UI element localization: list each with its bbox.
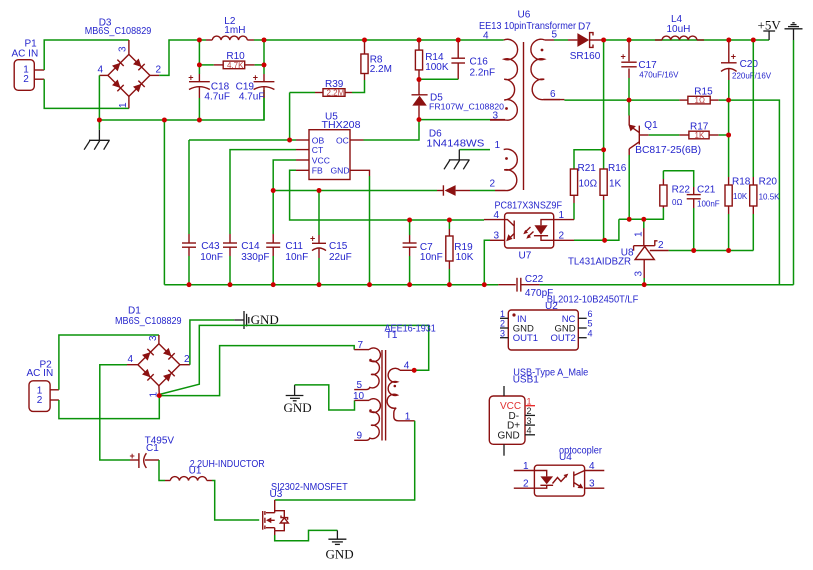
svg-text:T1: T1 (386, 330, 398, 341)
bridge rectifier D1 MB6S_C108829 (127, 335, 190, 396)
D1 diode on edge 4-3 (cathode at 3) (142, 349, 154, 361)
resistor R14 (415, 40, 422, 80)
junction U7 pin2 node (602, 238, 607, 243)
wire P1 pin1 to D3 pin3 (44, 40, 129, 70)
wire P1 pin2 to D3 pin1 (44, 79, 129, 108)
svg-text:Q1: Q1 (644, 120, 658, 131)
wire negative rail y=120 (99, 90, 264, 120)
svg-text:4: 4 (98, 65, 104, 76)
wire U7 pin3 down to rail (484, 240, 490, 284)
junction C18 bottom (197, 118, 202, 123)
svg-text:1mH: 1mH (224, 25, 245, 36)
wire +5V rail top (604, 39, 770, 41)
svg-text:R16: R16 (608, 163, 627, 174)
inductor L2 (199, 36, 264, 40)
resistor R10 (199, 61, 264, 70)
svg-text:5: 5 (357, 380, 363, 391)
junction rail C11 (271, 282, 276, 287)
svg-text:22uF: 22uF (329, 252, 352, 263)
svg-text:5: 5 (588, 319, 593, 329)
junction U8 pin3 rail (642, 282, 647, 287)
junction R14/D5 (417, 77, 422, 82)
svg-text:10uH: 10uH (667, 24, 691, 35)
svg-text:R18: R18 (732, 177, 751, 188)
wire C43 drop (188, 140, 190, 234)
bridge rectifier D3 MB6S_C108829 (99, 40, 159, 108)
earth ground GND at U3 source (326, 530, 354, 561)
svg-text:R10: R10 (226, 51, 245, 62)
transformer U6 aux winding pins 1-2 (495, 149, 517, 190)
svg-text:C1: C1 (146, 443, 159, 454)
junction Q1 emitter node (627, 217, 632, 222)
svg-text:U3: U3 (270, 489, 283, 500)
net flag GND sideways at D1 pin2 (234, 311, 279, 329)
svg-text:MB6S_C108829: MB6S_C108829 (85, 26, 152, 37)
wire U3 source to GND (275, 530, 338, 540)
junction C17 bottom (627, 98, 632, 103)
svg-text:+: + (188, 73, 193, 83)
wire VCC net to D6 (273, 190, 437, 192)
svg-text:GND: GND (331, 166, 350, 176)
svg-text:R20: R20 (759, 177, 778, 188)
wire emitter node horizontal to R22 (619, 208, 664, 219)
svg-text:+: + (130, 451, 135, 461)
wire R20 riser (752, 40, 754, 177)
wire D5 bottom to U5 OC (364, 120, 420, 140)
svg-text:C11: C11 (285, 241, 303, 252)
transformer T1 AEE16-1931 winding 7-5 (354, 348, 380, 390)
wire Q1 base to R17 (649, 134, 680, 136)
svg-text:10nF: 10nF (285, 252, 308, 263)
junction R10 left (197, 63, 202, 68)
svg-text:PC817X3NSZ9F: PC817X3NSZ9F (495, 201, 563, 212)
resistor R15 (679, 96, 728, 105)
svg-text:3: 3 (634, 271, 645, 277)
svg-text:330pF: 330pF (241, 252, 269, 263)
junction C16 top (456, 38, 461, 43)
svg-text:1K: 1K (609, 179, 622, 190)
wire TL431 ref net (669, 250, 754, 252)
junction ref R18 (726, 248, 731, 253)
wire U5 CT to C14 (230, 150, 296, 234)
resistor R21 (570, 169, 577, 220)
connector P1 pin 2 stub (34, 78, 44, 80)
svg-text:1N4148WS: 1N4148WS (426, 138, 484, 149)
svg-text:100nF: 100nF (697, 200, 720, 209)
svg-text:9: 9 (357, 431, 363, 442)
svg-text:6: 6 (588, 309, 593, 319)
capacitor C17 polarized electrolytic (621, 40, 637, 100)
junction T1 pin4 (412, 368, 417, 373)
svg-text:4.7uF: 4.7uF (204, 92, 230, 103)
junction rail C14 (228, 282, 233, 287)
svg-text:U6: U6 (518, 10, 531, 21)
svg-text:2: 2 (23, 74, 29, 85)
transformer U6 EE13 primary winding pins 4-3 (490, 39, 518, 120)
D3 diode on edge 1-2 (cathode at 2) (133, 81, 145, 93)
resistor R18 (725, 177, 732, 251)
svg-text:OUT2: OUT2 (551, 333, 576, 344)
junction R19 top (447, 218, 452, 223)
bottom rail left part (164, 284, 498, 286)
wire D7 long vertical x=604 (603, 40, 605, 150)
junction rail U7 pin3 (482, 282, 487, 287)
connector P1 pin 1 stub (34, 69, 44, 71)
T1 secondary phase dot (394, 385, 397, 388)
svg-text:1: 1 (523, 461, 529, 472)
wire L2 left down to R10/C18 (198, 40, 200, 74)
junction dots overlay (97, 38, 756, 398)
junction C7 top (407, 218, 412, 223)
earth ground GND left of T1 (284, 385, 312, 415)
svg-text:C43: C43 (201, 241, 220, 252)
D1 diode on edge 1-2 (cathode at 2) (163, 370, 175, 382)
svg-text:0Ω: 0Ω (672, 198, 682, 207)
junction rail C7 (407, 282, 412, 287)
junction R20 riser top (751, 38, 756, 43)
svg-text:2: 2 (527, 406, 532, 416)
U7 phototransistor (505, 220, 515, 226)
net flag +5V (758, 17, 782, 40)
resistor R19 (446, 220, 453, 285)
capacitor C7 (403, 220, 417, 285)
wire U1 to U3 gate (212, 481, 259, 521)
wire to R21 top (574, 150, 604, 169)
svg-text:MB6S_C108829: MB6S_C108829 (115, 316, 182, 327)
junction D7 cathode (601, 38, 606, 43)
capacitor C11 (266, 234, 280, 285)
svg-text:1: 1 (118, 102, 129, 108)
resistor R39 (290, 89, 352, 98)
wire C16 bottom to R14 bottom (419, 78, 458, 80)
wire GND to T1 pin10 (295, 385, 355, 410)
wire emitter node to U7 pin2 node (605, 219, 619, 240)
svg-text:4.7uF: 4.7uF (239, 92, 265, 103)
wire D1 pin4 to C1 (100, 365, 130, 460)
svg-text:6: 6 (550, 89, 556, 100)
capacitor C18 polarized (188, 73, 210, 120)
junction VCC / C11 (271, 188, 276, 193)
svg-text:1: 1 (559, 210, 565, 221)
junction C15 top (317, 188, 322, 193)
svg-text:GND: GND (498, 431, 520, 442)
junction R15 right (726, 98, 731, 103)
svg-text:R15: R15 (694, 87, 713, 98)
junction L2 left (197, 38, 202, 43)
svg-text:BC817-25(6B): BC817-25(6B) (635, 145, 701, 156)
capacitor C14 (223, 234, 237, 285)
capacitor C21 (687, 187, 701, 251)
svg-text:10nF: 10nF (200, 252, 223, 263)
junction C20 top (726, 38, 731, 43)
U6 secondary phase dot (541, 49, 544, 52)
connector P2 (27, 359, 54, 411)
wire D1 pin1 diagonal to T1 pin4 riser (159, 325, 428, 394)
svg-text:4: 4 (128, 354, 134, 365)
svg-text:U4: U4 (559, 452, 572, 463)
svg-text:220uF/16V: 220uF/16V (732, 72, 772, 81)
junction OB / R39 (287, 138, 292, 143)
filter U2 BL2012-10B2450T/LF (500, 310, 587, 350)
svg-text:GND: GND (284, 400, 312, 415)
D3 diode on edge 4-1 (cathode at 1) (112, 79, 124, 91)
junction D5 bottom (417, 117, 422, 122)
svg-text:4: 4 (527, 426, 532, 436)
resistor R16 (600, 150, 607, 241)
diode D5 FR107W_C108820 (412, 80, 428, 120)
wire R22 top to C21 top (663, 171, 693, 187)
chassis ground at U6 pin1 / D6 (444, 150, 490, 170)
svg-text:2: 2 (500, 319, 505, 329)
svg-text:BL2012-10B2450T/LF: BL2012-10B2450T/LF (547, 294, 639, 305)
net flag antenna (output +) (785, 23, 803, 40)
svg-text:U1: U1 (189, 465, 202, 476)
wire D1 pin2 up to GND flag (190, 320, 234, 365)
capacitor C19 polarized (253, 73, 275, 120)
junction ref C21 (691, 248, 696, 253)
svg-text:+: + (621, 52, 626, 62)
svg-text:D7: D7 (578, 22, 591, 33)
svg-text:TL431AIDBZR: TL431AIDBZR (568, 256, 631, 267)
junction D1 pin1 node (157, 393, 162, 398)
inductor U1 2.2uH (165, 477, 212, 481)
svg-text:OB: OB (312, 135, 325, 145)
resistor R20 (750, 177, 757, 251)
svg-text:USB1: USB1 (513, 374, 540, 385)
U7 light arrows (525, 227, 531, 232)
junction L2 right (262, 38, 267, 43)
wire D3 pin4 down to negative rail (98, 75, 100, 120)
svg-text:C16: C16 (470, 57, 489, 68)
svg-text:R17: R17 (690, 122, 709, 133)
IC U5 THX208 (296, 130, 370, 180)
U7 LED (541, 220, 554, 226)
U4 LED (534, 471, 546, 477)
wire R15 right to right branch (729, 100, 780, 285)
svg-text:OC: OC (336, 135, 349, 145)
connector USB1 USB-Type A_Male (489, 386, 535, 456)
svg-text:4: 4 (404, 360, 410, 371)
wire D1 pin1 to T1 pin7 riser (159, 346, 354, 396)
junction rail R19 (447, 282, 452, 287)
chassis ground below D3 (84, 120, 110, 150)
svg-text:THX208: THX208 (322, 120, 361, 131)
svg-text:EE13 10pinTransformer: EE13 10pinTransformer (479, 21, 577, 32)
svg-text:2: 2 (156, 65, 162, 76)
wire U6 pin3 red stub (490, 119, 505, 121)
wire U6 pin6 to R15 (544, 99, 680, 102)
svg-text:2: 2 (37, 395, 43, 406)
svg-text:4.7K: 4.7K (227, 61, 244, 70)
wire U5 GND down to bottom rail (369, 176, 371, 285)
svg-text:OUT1: OUT1 (513, 333, 538, 344)
wire U6 pin5 to D7 (545, 39, 568, 41)
wire C15 top drop (318, 191, 320, 236)
capacitor C1 T495V polarized (130, 451, 160, 468)
svg-text:C15: C15 (329, 241, 348, 252)
wire D5 bottom to transformer pin3 (419, 119, 490, 121)
U6 aux phase dot (505, 157, 508, 160)
svg-text:100K: 100K (425, 62, 449, 73)
svg-text:C22: C22 (525, 274, 544, 285)
svg-text:10K: 10K (733, 192, 748, 201)
svg-text:GND: GND (326, 547, 354, 562)
resistor R8 (361, 40, 368, 80)
svg-text:2: 2 (184, 354, 190, 365)
D1 diode on edge 4-1 (cathode at 1) (142, 368, 154, 380)
svg-text:2.2M: 2.2M (370, 64, 392, 75)
wire U5 OB net to C43 (189, 139, 296, 141)
svg-text:3: 3 (589, 479, 595, 490)
resistor R22 (660, 171, 667, 208)
svg-text:+: + (731, 52, 736, 62)
svg-text:10.5K: 10.5K (759, 192, 781, 201)
capacitor C15 polarized (310, 234, 326, 285)
svg-text:C20: C20 (740, 59, 759, 70)
wire Q1 emitter down (628, 155, 630, 219)
svg-text:3: 3 (500, 328, 505, 338)
junction x604 R21/R16 tops (601, 147, 606, 152)
svg-text:4: 4 (494, 210, 500, 221)
svg-text:+5V: +5V (758, 17, 782, 32)
junction negative rail branch down (162, 118, 167, 123)
svg-text:2: 2 (658, 240, 664, 251)
svg-text:2: 2 (490, 178, 496, 189)
svg-text:10nF: 10nF (420, 252, 443, 263)
wire P2 pin2 to D1 pin1 node (59, 396, 159, 419)
svg-text:2: 2 (559, 231, 565, 242)
svg-text:R21: R21 (578, 163, 597, 174)
junction R10 right (262, 63, 267, 68)
T1 winding1 phase dot (369, 359, 372, 362)
wire R15 node down to R17 node (728, 100, 730, 177)
svg-text:3: 3 (527, 416, 532, 426)
junction rail U5 GND (367, 282, 372, 287)
junction at D3 pin4 / ground (97, 118, 102, 123)
diode D6 1N4148WS (437, 185, 495, 196)
svg-text:3: 3 (148, 335, 159, 341)
transformer U6 secondary winding pins 5-6 (531, 39, 560, 99)
wire D3 pin2 up to L2 rail (159, 40, 199, 75)
svg-text:4: 4 (483, 31, 489, 42)
T1 winding2 phase dot (369, 409, 372, 412)
wire C1 to U1 (159, 460, 165, 481)
wire L2 right down to R10/C19 (263, 40, 265, 74)
junction R14 top (417, 38, 422, 43)
wire negative rail down to bottom rail (163, 120, 165, 285)
svg-text:3: 3 (494, 231, 500, 242)
wire R39 left down to U5 OB (289, 93, 291, 141)
wire U5 VCC to C11 (273, 160, 296, 234)
D1 diode on edge 3-2 (cathode at 2) (163, 347, 175, 359)
capacitor C20 polarized (721, 40, 737, 100)
resistor R17 (679, 131, 728, 140)
svg-text:+: + (310, 234, 315, 244)
svg-text:C14: C14 (241, 241, 260, 252)
junction U8 ref node (641, 217, 646, 222)
N-MOSFET U3 SI2302 (263, 500, 289, 531)
wire T1 pin1 to U3 drain (275, 421, 415, 500)
svg-text:SR160: SR160 (570, 51, 601, 62)
svg-text:1: 1 (495, 140, 501, 151)
svg-text:R22: R22 (672, 185, 691, 196)
svg-text:7: 7 (358, 340, 364, 351)
capacitor C16 (451, 40, 465, 79)
svg-text:4: 4 (588, 328, 593, 338)
junction rail C43 (187, 282, 192, 287)
junction C17 top (627, 38, 632, 43)
wire main rail y=40 L2 to transformer (264, 39, 504, 41)
svg-text:10K: 10K (456, 252, 474, 263)
transformer T1 secondary winding 4-1 (387, 368, 415, 420)
svg-text:CT: CT (312, 145, 324, 155)
svg-text:2.2nF: 2.2nF (470, 68, 496, 79)
transformer T1 winding 10-9 (354, 399, 380, 441)
inductor L4 (655, 36, 704, 40)
wire U7 pin2 to node (574, 239, 605, 241)
T1 core (382, 350, 386, 441)
wire R8 bottom to R39 right (352, 80, 365, 93)
shunt regulator U8 TL431AIDBZR (634, 219, 669, 284)
svg-text:U7: U7 (519, 251, 532, 262)
svg-text:VCC: VCC (312, 155, 330, 165)
connector P2 pin 1 stub (50, 389, 59, 391)
svg-text:1: 1 (405, 411, 411, 422)
D3 diode on edge 4-3 (cathode at 3) (112, 60, 124, 72)
D3 diode on edge 3-2 (cathode at 2) (133, 58, 145, 70)
svg-text:470uF/16V: 470uF/16V (639, 71, 679, 80)
svg-text:FB: FB (312, 166, 323, 176)
svg-text:10: 10 (353, 391, 365, 402)
optocoupler U7 PC817X3NSZ9F (484, 213, 574, 248)
svg-text:AC IN: AC IN (27, 368, 54, 379)
svg-text:4: 4 (589, 461, 595, 472)
U6 primary phase dot (505, 107, 508, 110)
bottom rail right part (540, 284, 794, 286)
U4 light zigzag arrow (553, 476, 567, 484)
svg-text:R39: R39 (325, 79, 344, 90)
svg-text:AC IN: AC IN (12, 48, 39, 59)
svg-text:3: 3 (118, 46, 129, 52)
svg-text:10Ω: 10Ω (579, 179, 598, 190)
junction R8 top (362, 38, 367, 43)
svg-text:1: 1 (634, 231, 645, 237)
capacitor C43 (182, 234, 196, 285)
svg-text:U2: U2 (545, 301, 558, 312)
connector P1 (12, 39, 39, 91)
U3 body diode (275, 523, 285, 531)
svg-text:5: 5 (552, 30, 558, 41)
svg-text:2: 2 (523, 479, 529, 490)
svg-text:1: 1 (527, 397, 532, 407)
transistor Q1 BC817 (628, 100, 648, 155)
capacitor C22 in rail (498, 278, 539, 292)
connector P2 pin 2 stub (50, 399, 59, 401)
wire U5 FB to U7 pin4 (290, 170, 484, 220)
diode D7 SR160 schottky (568, 33, 604, 48)
svg-text:D1: D1 (128, 306, 141, 317)
wire P2 pin1 to D1 pin3 (59, 335, 159, 390)
junction R17 right (726, 133, 731, 138)
junction rail C15 (317, 282, 322, 287)
wire antenna down right edge to bottom rail (793, 40, 795, 285)
svg-text:1: 1 (500, 309, 505, 319)
optocoupler U4 (514, 465, 605, 496)
U4 phototransistor (573, 472, 575, 488)
U6 core (523, 42, 525, 190)
svg-text:C21: C21 (697, 185, 716, 196)
svg-text:SI2302-NMOSFET: SI2302-NMOSFET (271, 482, 348, 493)
